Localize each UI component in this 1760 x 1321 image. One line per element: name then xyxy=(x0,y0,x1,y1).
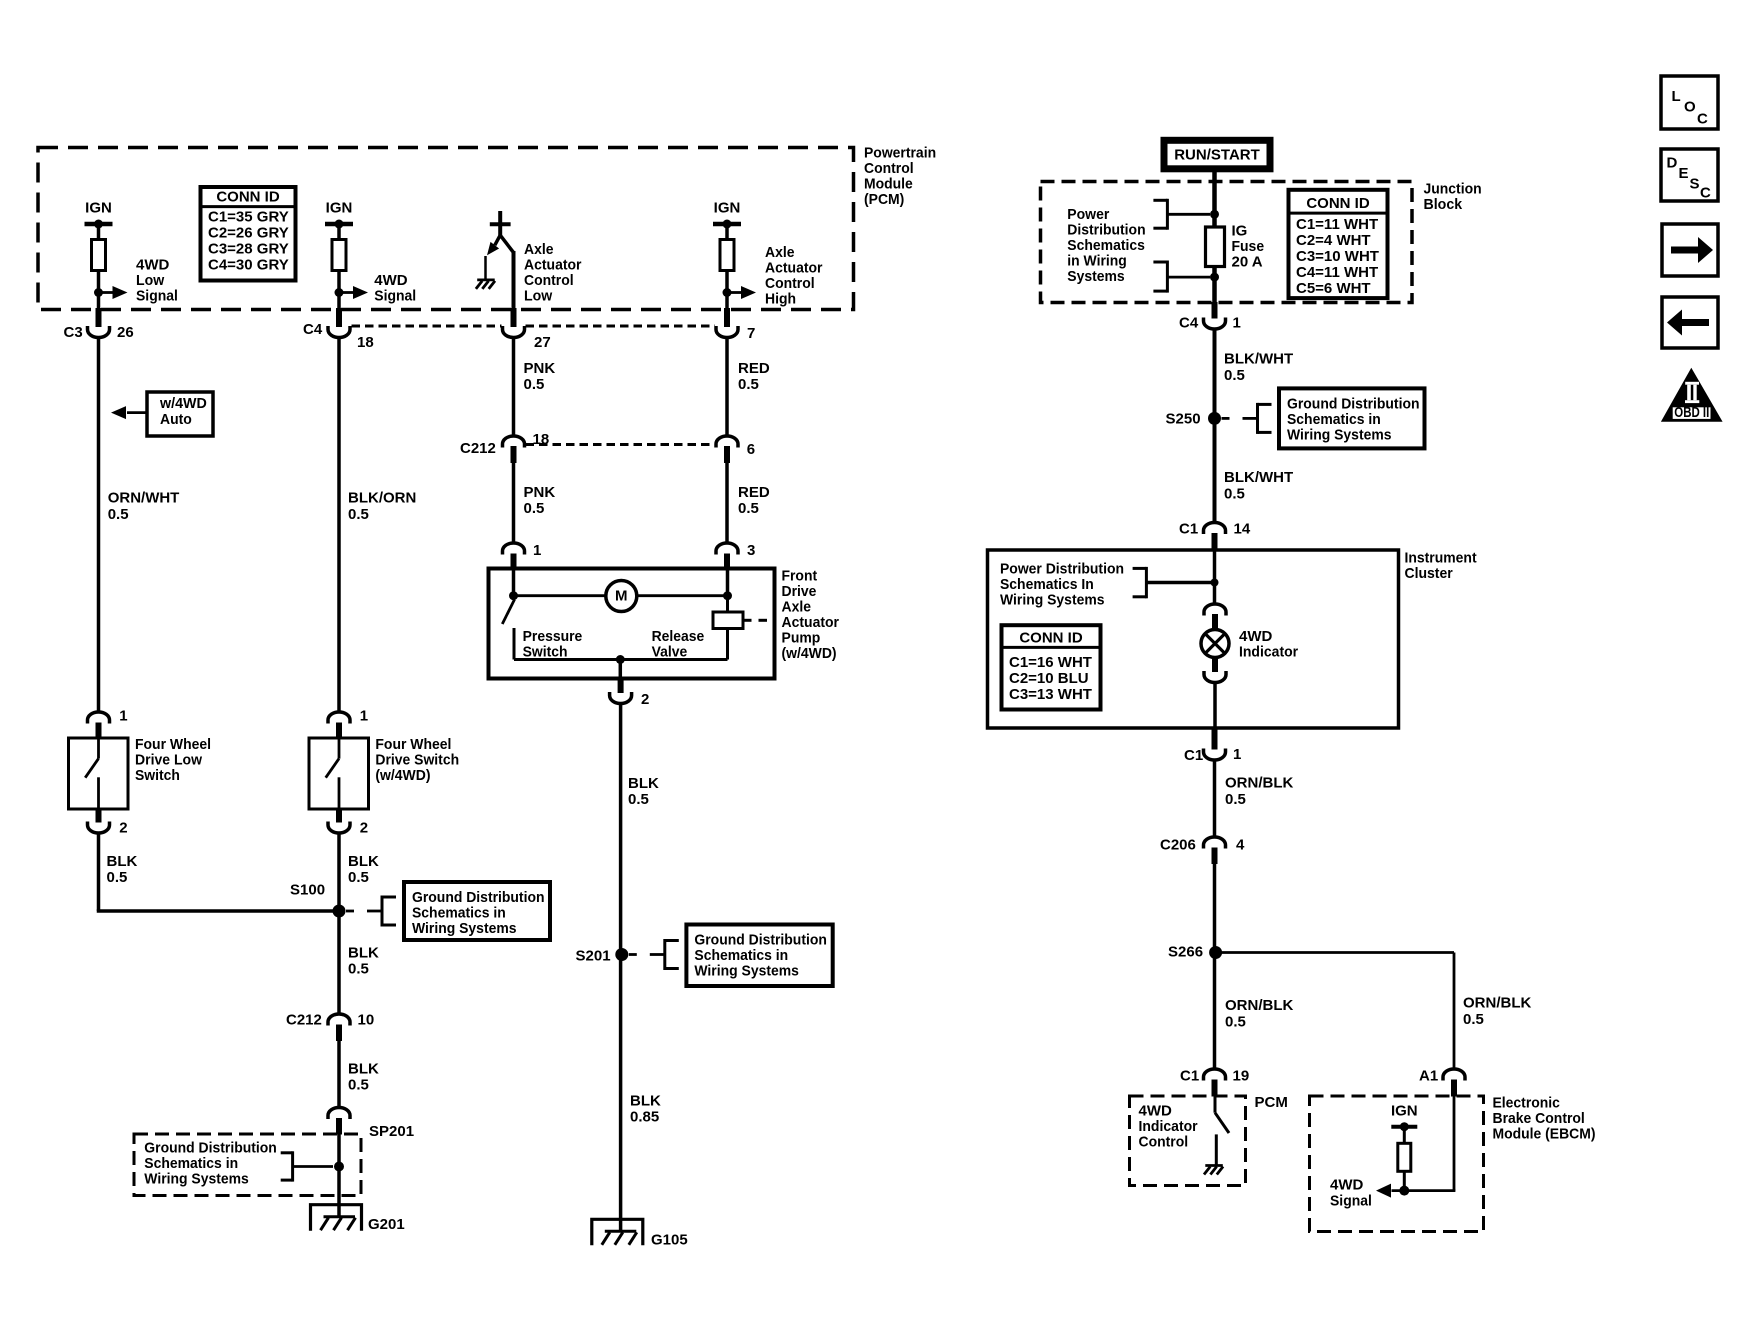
connector C4 pin 18 xyxy=(328,326,350,338)
svg-text:O: O xyxy=(1684,99,1696,116)
four wheel drive low switch contacts xyxy=(85,739,98,809)
node pressure switch / motor xyxy=(509,591,518,600)
pump internal return wire xyxy=(514,658,728,661)
connector C1 pin 14 stub xyxy=(1212,533,1218,551)
svg-text:0.5: 0.5 xyxy=(738,500,759,517)
connector C206 pin 4 stub xyxy=(1212,848,1218,865)
svg-text:4WD: 4WD xyxy=(136,257,170,274)
connector C3 pin 26 labels xyxy=(64,324,134,341)
wire BLK S201 to G105 xyxy=(619,955,623,1232)
wire BLK/WHT S250 to C1-14 xyxy=(1213,418,1217,522)
svg-text:Module: Module xyxy=(864,176,913,193)
wire ORN/WHT pin 26 to switch xyxy=(97,337,101,712)
wire BLK/WHT C4-1 to S250 xyxy=(1213,329,1217,419)
svg-text:Schematics in: Schematics in xyxy=(1287,411,1381,428)
svg-text:Low: Low xyxy=(136,272,165,289)
svg-text:C2=4 WHT: C2=4 WHT xyxy=(1296,232,1371,249)
four wheel drive low switch box xyxy=(69,738,129,809)
svg-text:0.5: 0.5 xyxy=(1225,791,1246,808)
svg-text:ORN/BLK: ORN/BLK xyxy=(1463,995,1531,1012)
svg-text:Power Distribution: Power Distribution xyxy=(1000,561,1124,578)
svg-text:14: 14 xyxy=(1234,521,1251,538)
4WD Signal arrow (EBCM) xyxy=(1376,1184,1455,1198)
svg-text:C5=6 WHT: C5=6 WHT xyxy=(1296,280,1371,297)
DESC legend box xyxy=(1661,149,1718,202)
node release valve / motor xyxy=(723,591,732,600)
svg-text:26: 26 xyxy=(117,324,134,341)
instrument cluster box xyxy=(988,550,1399,728)
connector four wheel drive low switch pin 1 stub xyxy=(96,723,102,740)
svg-text:S201: S201 xyxy=(576,948,611,965)
connector C212 pin 18 xyxy=(503,436,525,448)
svg-text:C1=16 WHT: C1=16 WHT xyxy=(1009,654,1092,671)
wire BLK from 4wd switch pin 2 to S100 xyxy=(337,833,341,912)
Axle Actuator Control High arrow xyxy=(727,291,742,294)
wire pump return to pin 2 xyxy=(619,660,623,678)
connector C1 pin 1 stub xyxy=(1212,727,1218,750)
connector four wheel drive switch pin 2 xyxy=(328,822,350,834)
connector pin 7 xyxy=(716,326,738,338)
svg-text:Control: Control xyxy=(524,272,574,289)
wire RED C212 to pump pin 3 xyxy=(725,462,729,543)
connector C206 pin 4 labels xyxy=(1160,837,1245,854)
wire resistor to node xyxy=(97,271,101,293)
svg-text:Fuse: Fuse xyxy=(1232,238,1265,255)
LOC legend box xyxy=(1661,76,1718,129)
svg-text:0.5: 0.5 xyxy=(348,961,369,978)
wire PNK C212 to pump pin 1 xyxy=(512,462,516,543)
svg-text:Ground Distribution: Ground Distribution xyxy=(412,889,545,906)
connector C3 pin 26 pin stub xyxy=(96,308,102,327)
svg-text:C4=30 GRY: C4=30 GRY xyxy=(208,257,289,274)
w/4WD Auto reference arrow xyxy=(111,406,147,419)
svg-text:S266: S266 xyxy=(1168,944,1203,961)
connector A1 stub xyxy=(1451,1080,1457,1097)
svg-text:BLK: BLK xyxy=(107,853,138,870)
wire BLK pump pin 2 to S201 xyxy=(619,704,623,955)
motor M xyxy=(606,581,637,612)
svg-text:Drive: Drive xyxy=(782,583,817,600)
svg-text:Release: Release xyxy=(652,628,705,645)
wire BLK/ORN pin 18 to switch xyxy=(337,337,341,712)
svg-text:A1: A1 xyxy=(1419,1068,1438,1085)
svg-text:1: 1 xyxy=(360,708,368,725)
connector four wheel drive switch pin 2 stub xyxy=(336,808,342,823)
connector C212 pin 6 pin stub xyxy=(724,446,730,463)
connector C212 pin 10 stub xyxy=(336,1025,342,1042)
w/4WD Auto box xyxy=(147,392,213,436)
power distribution bracket (upper) xyxy=(1153,199,1210,230)
wire ORN/BLK C1-1 to C206 xyxy=(1213,760,1217,838)
wire IGN bar to resistor (EBCM) xyxy=(1403,1127,1406,1144)
PCM CONN ID table xyxy=(201,187,296,281)
junction block CONN ID table xyxy=(1289,190,1388,298)
svg-text:BLK: BLK xyxy=(348,853,379,870)
wire motor left lead xyxy=(514,594,607,597)
svg-text:Distribution: Distribution xyxy=(1067,222,1145,239)
SP201 reference bracket xyxy=(281,1151,333,1181)
4WD indicator lamp xyxy=(1201,630,1229,658)
svg-text:Wiring Systems: Wiring Systems xyxy=(1287,426,1392,443)
lamp connector bottom stub xyxy=(1212,656,1218,672)
svg-text:Junction: Junction xyxy=(1424,181,1482,198)
svg-text:Indicator: Indicator xyxy=(1239,644,1298,661)
4WD indicator control switch xyxy=(1215,1097,1229,1166)
wire node to PCM edge (pin 18) xyxy=(337,293,341,310)
node SP201 tap xyxy=(334,1162,344,1172)
svg-text:Control: Control xyxy=(864,160,914,177)
pump connector pin 1 stub xyxy=(511,554,517,570)
svg-text:(w/4WD): (w/4WD) xyxy=(782,645,837,662)
wire ORN/BLK S266 to EBCM branch xyxy=(1216,953,1454,1070)
connector C1 pin 14 xyxy=(1204,523,1226,535)
svg-text:0.5: 0.5 xyxy=(1463,1011,1484,1028)
svg-text:C1=35 GRY: C1=35 GRY xyxy=(208,209,289,226)
svg-text:ORN/BLK: ORN/BLK xyxy=(1225,997,1293,1014)
svg-text:Actuator: Actuator xyxy=(765,260,823,277)
svg-text:C4: C4 xyxy=(303,321,323,338)
svg-text:2: 2 xyxy=(360,820,368,837)
wire A1 to 4WD signal node xyxy=(1453,1097,1456,1191)
svg-text:BLK: BLK xyxy=(348,1061,379,1078)
svg-text:0.5: 0.5 xyxy=(107,869,128,886)
svg-text:RUN/START: RUN/START xyxy=(1174,146,1260,163)
svg-text:Wiring Systems: Wiring Systems xyxy=(144,1171,249,1188)
svg-text:0.5: 0.5 xyxy=(738,376,759,393)
connector SP201 feed stub xyxy=(336,1118,342,1135)
svg-text:2: 2 xyxy=(119,820,127,837)
node 4WD Low Signal tap xyxy=(94,288,103,297)
svg-text:S: S xyxy=(1690,176,1700,193)
connector four wheel drive switch pin 1 xyxy=(328,712,350,724)
connector C4 pin 1 xyxy=(1204,318,1226,330)
wire node to PCM edge (pin 7) xyxy=(725,293,729,310)
splice S266 xyxy=(1209,946,1222,959)
connector C4 pin 18 pin stub xyxy=(336,308,342,327)
wire RED pin 7 to C212 xyxy=(725,337,729,436)
connector C4 pin 1 stub xyxy=(1212,302,1218,319)
svg-text:SP201: SP201 xyxy=(369,1123,414,1140)
svg-text:CONN ID: CONN ID xyxy=(1306,195,1370,212)
svg-text:BLK/ORN: BLK/ORN xyxy=(348,490,416,507)
svg-text:CONN ID: CONN ID xyxy=(216,189,280,206)
svg-text:M: M xyxy=(615,588,628,605)
svg-text:S250: S250 xyxy=(1166,411,1201,428)
svg-text:1: 1 xyxy=(533,542,541,559)
power distribution bracket (lower) xyxy=(1153,261,1210,293)
4WD Signal arrow xyxy=(339,291,354,294)
svg-text:C3=10 WHT: C3=10 WHT xyxy=(1296,248,1379,265)
ground distribution reference box (S201) xyxy=(686,925,832,987)
wire IGN bar to resistor xyxy=(337,224,341,240)
lamp connector (bottom) xyxy=(1204,671,1226,683)
lamp connector (top) xyxy=(1204,604,1226,616)
connector C3 pin 26 xyxy=(88,326,110,338)
svg-text:C: C xyxy=(1697,111,1708,128)
svg-text:4WD: 4WD xyxy=(1139,1103,1173,1120)
svg-text:Control: Control xyxy=(765,275,815,292)
svg-text:S100: S100 xyxy=(290,882,325,899)
svg-text:Electronic: Electronic xyxy=(1493,1095,1560,1112)
svg-text:C2=26 GRY: C2=26 GRY xyxy=(208,225,289,242)
svg-text:Schematics In: Schematics In xyxy=(1000,576,1094,593)
connector C212 pin 10 labels xyxy=(286,1012,374,1029)
svg-text:Schematics in: Schematics in xyxy=(412,905,506,922)
svg-text:20 A: 20 A xyxy=(1232,254,1263,271)
svg-text:Control: Control xyxy=(1139,1134,1189,1151)
svg-text:Signal: Signal xyxy=(136,288,178,305)
wire IG fuse to C4 pin 1 xyxy=(1212,267,1217,304)
wire pump pin 3 to release valve node xyxy=(726,570,730,596)
svg-text:0.5: 0.5 xyxy=(628,791,649,808)
svg-text:Wiring Systems: Wiring Systems xyxy=(412,920,517,937)
axle actuator control low driver symbol xyxy=(486,211,511,279)
connector C1 pin 19 stub xyxy=(1212,1080,1218,1097)
svg-text:Valve: Valve xyxy=(652,644,688,661)
IGN feed bar with junction xyxy=(713,222,741,227)
release valve body xyxy=(713,596,767,660)
svg-text:w/4WD: w/4WD xyxy=(159,395,207,412)
svg-text:Instrument: Instrument xyxy=(1405,550,1477,567)
svg-text:Axle: Axle xyxy=(765,244,795,261)
svg-text:Signal: Signal xyxy=(374,288,416,305)
resistor 4WD signal pull-up (EBCM) xyxy=(1398,1143,1411,1171)
connector C1 pin 19 labels xyxy=(1180,1068,1249,1085)
svg-text:Drive Low: Drive Low xyxy=(135,752,202,769)
svg-text:C1: C1 xyxy=(1180,1068,1199,1085)
svg-text:C4: C4 xyxy=(1179,315,1199,332)
svg-text:BLK/WHT: BLK/WHT xyxy=(1224,351,1293,368)
svg-text:Drive Switch: Drive Switch xyxy=(375,752,459,769)
lamp connector top stub xyxy=(1212,614,1218,631)
resistor Axle Actuator Control High pull-up xyxy=(720,240,734,271)
IGN feed bar (EBCM) xyxy=(1391,1122,1417,1131)
pump connector pin 3 stub xyxy=(724,554,730,570)
svg-text:7: 7 xyxy=(747,325,755,342)
svg-text:IGN: IGN xyxy=(85,200,112,217)
power distribution bracket (instrument cluster) xyxy=(1133,567,1215,598)
S250 reference bracket xyxy=(1222,403,1272,434)
svg-text:1: 1 xyxy=(119,708,127,725)
svg-text:4WD: 4WD xyxy=(1239,628,1273,645)
svg-text:27: 27 xyxy=(534,334,551,351)
svg-text:3: 3 xyxy=(747,542,755,559)
svg-text:IG: IG xyxy=(1232,223,1248,240)
svg-text:OBD II: OBD II xyxy=(1674,404,1709,421)
svg-text:C: C xyxy=(1700,185,1711,202)
svg-text:0.5: 0.5 xyxy=(348,1077,369,1094)
svg-text:Cluster: Cluster xyxy=(1405,565,1453,582)
svg-text:BLK: BLK xyxy=(630,1093,661,1110)
wire RUN/START to IG fuse xyxy=(1212,171,1217,227)
svg-text:Auto: Auto xyxy=(160,411,192,428)
svg-text:Wiring Systems: Wiring Systems xyxy=(1000,592,1105,609)
PCM indicator dashed box xyxy=(1130,1096,1246,1186)
splice S201 xyxy=(615,948,628,961)
svg-text:C4=11 WHT: C4=11 WHT xyxy=(1296,264,1378,281)
forward arrow legend box xyxy=(1662,224,1718,276)
connector four wheel drive low switch pin 1 xyxy=(88,712,110,724)
svg-text:Wiring Systems: Wiring Systems xyxy=(694,963,799,980)
4WD Low Signal arrow xyxy=(99,291,114,294)
ground G105 xyxy=(592,1219,643,1245)
svg-text:C3=28 GRY: C3=28 GRY xyxy=(208,241,289,258)
svg-text:Schematics in: Schematics in xyxy=(694,947,788,964)
svg-text:Power: Power xyxy=(1067,206,1109,223)
S100 reference bracket xyxy=(346,896,396,927)
svg-text:4WD: 4WD xyxy=(374,272,408,289)
svg-text:0.5: 0.5 xyxy=(348,506,369,523)
junction block dashed box xyxy=(1041,182,1413,303)
svg-text:C2=10 BLU: C2=10 BLU xyxy=(1009,670,1089,687)
svg-text:PNK: PNK xyxy=(524,484,556,501)
svg-text:Ground Distribution: Ground Distribution xyxy=(1287,395,1420,412)
ground distribution reference box (S100) xyxy=(404,882,550,940)
inline harness dashed link C212-18 to C212-6 xyxy=(526,443,716,446)
connector SP201 feed xyxy=(328,1108,350,1120)
connector C1 pin 1 xyxy=(1204,749,1226,761)
svg-text:IGN: IGN xyxy=(714,200,741,217)
connector four wheel drive low switch pin 2 stub xyxy=(96,808,102,823)
wire IGN bar to resistor xyxy=(725,224,729,240)
svg-text:Schematics in: Schematics in xyxy=(144,1155,238,1172)
svg-text:0.5: 0.5 xyxy=(524,376,545,393)
connector C212 pin 10 xyxy=(328,1014,350,1026)
svg-text:PCM: PCM xyxy=(1255,1094,1288,1111)
wire ORN/BLK C206 to S266 xyxy=(1213,863,1217,953)
svg-text:0.5: 0.5 xyxy=(1225,1014,1246,1031)
resistor 4WD Low Signal pull-up xyxy=(92,240,106,271)
connector C212 pin 6 xyxy=(716,436,738,448)
wire lamp to cluster edge xyxy=(1213,683,1217,730)
wire pump pin 1 to pressure switch node xyxy=(512,570,516,596)
connector C206 pin 4 xyxy=(1204,837,1226,849)
connector C212 pin 18 pin stub xyxy=(511,446,517,463)
svg-text:PNK: PNK xyxy=(524,360,556,377)
svg-text:Four Wheel: Four Wheel xyxy=(375,736,451,753)
svg-text:6: 6 xyxy=(747,441,755,458)
svg-text:1: 1 xyxy=(1233,315,1241,332)
connector pin 27 xyxy=(503,326,525,338)
IG fuse 20 A xyxy=(1206,227,1225,267)
wire resistor to node xyxy=(725,271,729,293)
svg-text:IGN: IGN xyxy=(1391,1103,1418,1120)
svg-text:Actuator: Actuator xyxy=(782,614,840,631)
wire SP201 to G201 xyxy=(337,1134,341,1217)
svg-text:C206: C206 xyxy=(1160,837,1196,854)
PCM module dashed box xyxy=(38,148,854,310)
svg-text:ORN/WHT: ORN/WHT xyxy=(108,490,180,507)
ground G201 xyxy=(311,1205,362,1231)
svg-text:Low: Low xyxy=(524,288,553,305)
connector pin 27 pin stub xyxy=(511,308,517,327)
svg-text:4WD: 4WD xyxy=(1330,1177,1364,1194)
svg-text:0.85: 0.85 xyxy=(630,1109,659,1126)
ground distribution reference box (S250) xyxy=(1279,388,1425,448)
connector C1 pin 1 labels xyxy=(1184,746,1241,764)
node pump return xyxy=(616,655,625,664)
node fuse feed tap xyxy=(1210,210,1219,219)
svg-text:Schematics: Schematics xyxy=(1067,237,1145,254)
svg-text:Four Wheel: Four Wheel xyxy=(135,736,211,753)
svg-text:0.5: 0.5 xyxy=(108,506,129,523)
svg-text:Brake Control: Brake Control xyxy=(1493,1110,1585,1127)
svg-text:BLK/WHT: BLK/WHT xyxy=(1224,469,1293,486)
wire C1-14 into cluster to lamp xyxy=(1213,551,1217,604)
wire BLK from low switch pin 2 xyxy=(97,833,339,912)
svg-text:Switch: Switch xyxy=(523,644,568,661)
wire BLK C212-10 to SP201 xyxy=(337,1040,341,1108)
svg-text:Front: Front xyxy=(782,567,818,584)
svg-text:Actuator: Actuator xyxy=(524,257,582,274)
svg-text:C1: C1 xyxy=(1184,747,1203,764)
svg-text:IGN: IGN xyxy=(326,200,353,217)
IGN feed bar with junction xyxy=(325,222,353,227)
svg-text:E: E xyxy=(1679,165,1689,182)
svg-text:Ground Distribution: Ground Distribution xyxy=(694,932,827,949)
connector C4 pin 18 labels xyxy=(303,321,374,351)
back arrow legend box xyxy=(1662,297,1718,348)
svg-text:0.5: 0.5 xyxy=(1224,486,1245,503)
splice S100 xyxy=(333,905,346,918)
svg-text:10: 10 xyxy=(358,1012,375,1029)
S201 reference bracket xyxy=(629,939,679,970)
svg-text:1: 1 xyxy=(1233,746,1241,763)
svg-text:19: 19 xyxy=(1233,1068,1250,1085)
IGN feed bar with junction xyxy=(85,222,113,227)
front drive axle actuator pump box xyxy=(489,569,775,679)
svg-text:BLK: BLK xyxy=(348,945,379,962)
wire IGN bar to resistor R (4WD Low Signal pull-up) xyxy=(97,224,101,240)
svg-text:(PCM): (PCM) xyxy=(864,191,904,208)
svg-text:CONN ID: CONN ID xyxy=(1019,630,1083,647)
wire motor right lead xyxy=(637,594,728,597)
node 4WD Signal tap xyxy=(335,288,344,297)
ground (axle actuator control low driver) xyxy=(476,280,495,289)
instrument cluster CONN ID table xyxy=(1002,625,1101,709)
node 4WD signal (EBCM) xyxy=(1399,1186,1409,1196)
svg-text:D: D xyxy=(1667,154,1678,171)
svg-text:Axle: Axle xyxy=(782,598,812,615)
wire resistor to 4WD signal node xyxy=(1403,1171,1406,1190)
svg-text:Module (EBCM): Module (EBCM) xyxy=(1493,1126,1596,1143)
svg-text:C212: C212 xyxy=(460,440,496,457)
node fuse output tap xyxy=(1210,273,1219,282)
svg-text:C3: C3 xyxy=(64,324,83,341)
svg-text:G201: G201 xyxy=(368,1216,405,1233)
connector four wheel drive switch pin 1 stub xyxy=(336,723,342,740)
svg-text:Ground Distribution: Ground Distribution xyxy=(144,1140,276,1157)
svg-text:RED: RED xyxy=(738,360,770,377)
connector C1 pin 14 labels xyxy=(1179,521,1251,538)
pressure switch blade xyxy=(502,600,514,660)
svg-text:G105: G105 xyxy=(651,1232,688,1249)
svg-text:0.5: 0.5 xyxy=(524,500,545,517)
svg-text:C1: C1 xyxy=(1179,521,1198,538)
resistor 4WD Signal pull-up xyxy=(332,240,346,271)
node Axle Actuator Control High tap xyxy=(723,288,732,297)
svg-text:Indicator: Indicator xyxy=(1139,1118,1198,1135)
svg-text:Block: Block xyxy=(1424,196,1463,213)
svg-text:Axle: Axle xyxy=(524,241,554,258)
svg-text:2: 2 xyxy=(641,691,649,708)
wire ORN/BLK S266 to C1-19 xyxy=(1213,953,1217,1070)
svg-text:ORN/BLK: ORN/BLK xyxy=(1225,775,1293,792)
wire node to PCM edge (pin 26) xyxy=(97,293,101,310)
connector four wheel drive low switch pin 2 xyxy=(88,822,110,834)
inline harness dashed link C4 to pin 7 xyxy=(352,325,716,328)
connector C1 pin 19 xyxy=(1204,1069,1226,1081)
